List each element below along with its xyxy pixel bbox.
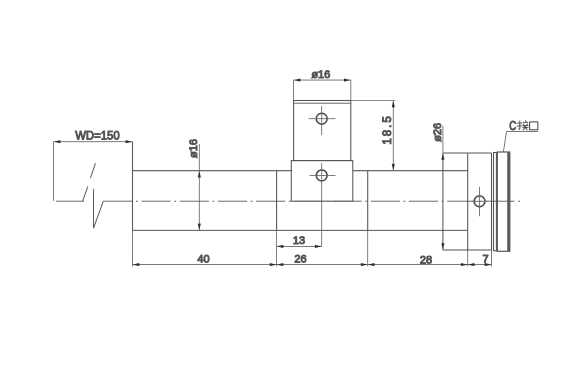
svg-text:ø16: ø16: [188, 139, 200, 158]
label C接口: [509, 119, 538, 133]
extension below tube left: [132, 230, 134, 266]
svg-text:ø16: ø16: [311, 69, 330, 81]
leader C-mount: [503, 132, 538, 153]
glyph 口: [530, 122, 538, 130]
flange ring B (C-mount): [497, 152, 510, 251]
dimension ø26: [441, 126, 444, 250]
svg-text:40: 40: [197, 254, 209, 266]
svg-text:26: 26: [294, 254, 306, 266]
cylinder ø26: [443, 153, 492, 250]
svg-text:WD=150: WD=150: [75, 129, 120, 143]
dimension WD=150: [54, 140, 133, 143]
section boundary at 40: [276, 171, 278, 231]
svg-text:18.5: 18.5: [382, 114, 394, 144]
WD extension line left: [53, 142, 55, 201]
screw section end edge: [491, 153, 493, 250]
section boundary at 26: [367, 171, 369, 231]
svg-text:7: 7: [482, 254, 488, 266]
screw hole: [471, 187, 488, 216]
svg-text:ø26: ø26: [432, 123, 444, 142]
bracket upper block: [294, 101, 351, 161]
dimension ø16 on tube: [198, 144, 201, 230]
dimension 13: [277, 245, 322, 248]
svg-text:C: C: [509, 119, 516, 133]
centerline: [56, 200, 522, 202]
break symbol: [83, 163, 104, 228]
tube body (ø16 main tube): [133, 142, 468, 231]
dimension ø16 top: [294, 79, 351, 101]
lower hole: [310, 163, 336, 246]
bracket lower block: [291, 161, 353, 202]
svg-text:13: 13: [293, 235, 305, 247]
glyph 接: [517, 120, 529, 130]
dimension chain 40 26 28 7: [133, 263, 492, 266]
upper hole: [309, 106, 336, 135]
svg-text:28: 28: [420, 254, 432, 266]
dimension 18.5: [351, 101, 395, 171]
flange ring A: [494, 153, 497, 251]
